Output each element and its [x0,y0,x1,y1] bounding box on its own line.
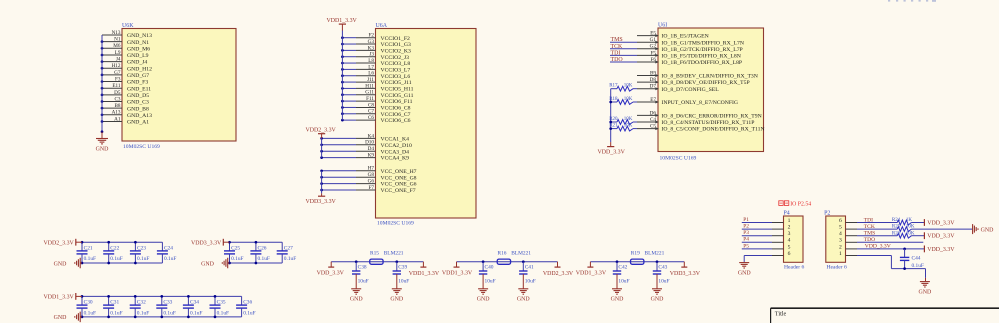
capacitor C32 0.1uF [130,295,150,318]
svg-text:G7: G7 [114,70,121,76]
pin 3 of P4 with net label P3 [742,230,791,237]
svg-text:Title: Title [775,310,787,317]
wire and net label TCK to U6I pin G2 [610,44,637,50]
svg-text:VCC_ONE_F7: VCC_ONE_F7 [381,188,416,194]
resistor R17 10K pullup [609,84,637,91]
svg-text:D8: D8 [650,77,657,83]
svg-text:D10: D10 [365,140,374,146]
svg-text:C30: C30 [84,300,93,306]
wire and net label TDO to U6I pin F6 [610,57,637,63]
svg-text:VCCA2_D10: VCCA2_D10 [381,143,412,149]
pin D5 of U6K (GND_D5) [101,90,150,99]
pin C8 of U6A (VCCIO6_C8) [341,102,411,111]
pin F7 of U6A (VCC_ONE_F7) [320,185,415,194]
svg-text:IO_8_D8/DEV_OE/DIFFIO_RX_T5P: IO_8_D8/DEV_OE/DIFFIO_RX_T5P [662,80,750,86]
svg-text:INPUT_ONLY_8_E7/NCONFIG: INPUT_ONLY_8_E7/NCONFIG [662,100,739,106]
svg-text:VDD3_3.3V: VDD3_3.3V [670,271,701,277]
svg-text:0.1uF: 0.1uF [912,263,924,269]
pin B9 of U6I (IO_8_B9/DEV_CLRN/DIFFIO_RX_T3N) [637,70,758,79]
svg-text:GND: GND [738,271,752,277]
svg-text:D7: D7 [650,84,657,90]
svg-text:C36: C36 [243,300,252,306]
svg-text:R19: R19 [631,251,640,257]
pin 5 of P4 with net label P5 [742,243,791,250]
svg-text:GND_F3: GND_F3 [127,80,148,86]
resistor R25 10K pull-down on TCK [892,225,972,232]
svg-text:C8: C8 [368,102,374,108]
svg-text:C41: C41 [525,264,534,270]
svg-text:TMS: TMS [864,231,876,237]
pin F3 of U6K (GND_F3) [101,76,149,85]
designator U6A [376,23,388,29]
svg-text:0.1uF: 0.1uF [217,310,229,316]
cropped text artifacts top edge [888,0,936,2]
svg-text:U6A: U6A [376,23,388,29]
svg-text:10K: 10K [624,97,633,102]
svg-text:VDD3_3.3V: VDD3_3.3V [306,199,337,205]
wire from P2 pin 1 to ground [857,256,926,278]
designator U6I [658,22,667,28]
capacitor C41 10uF [519,260,536,288]
svg-text:VDD2_3.3V: VDD2_3.3V [44,241,75,247]
wire filter rail R19 [590,261,684,263]
pin D7 of U6I (IO_8_D7/CONFIG_SEL) [637,84,719,93]
svg-text:GND_J4: GND_J4 [127,60,147,66]
capacitor C26 0.1uF [250,241,270,265]
wire TMS from P2 pin 4 with net label [857,231,897,237]
wire TDO from P2 pin 3 with net label [857,237,923,243]
ground symbol for capacitor bank C21-C24 [54,258,82,269]
pin L7 of U6A (VCCIO3_L7) [341,64,410,73]
svg-text:GND_L9: GND_L9 [127,53,149,59]
wire pull-up bus left of U6I [609,89,612,142]
svg-text:GND: GND [477,297,491,303]
ground symbol below C44 [919,278,933,296]
svg-text:C3: C3 [114,96,120,102]
svg-text:0.1uF: 0.1uF [284,256,296,262]
svg-text:K4: K4 [368,133,375,139]
svg-text:Header 6: Header 6 [827,265,848,271]
svg-text:VCCIO3_L7: VCCIO3_L7 [381,68,411,74]
power port VDD_3.3V below pull-up bus [598,142,626,155]
svg-text:F3: F3 [115,76,121,82]
svg-text:VCCIO2_K3: VCCIO2_K3 [381,48,411,54]
svg-text:F5: F5 [651,50,657,56]
svg-text:P4: P4 [784,211,790,217]
svg-text:0.1uF: 0.1uF [84,310,96,316]
svg-text:VCCIO1_F2: VCCIO1_F2 [381,36,411,42]
pin F2 of U6A (VCCIO1_F2) [341,33,410,42]
wire top rail VDD1_3.3V capacitor bank [82,295,242,297]
svg-text:C44: C44 [912,255,921,261]
wire filter rail R16 [457,261,558,263]
capacitor C35 0.1uF [210,295,230,318]
svg-text:A1: A1 [114,116,121,122]
svg-text:F6: F6 [651,57,657,63]
svg-text:TDO: TDO [611,57,624,63]
pin G1 of U6I (IO_1B_G1/TMS/DIFFIO_RX_L7N) [637,37,744,46]
svg-text:10K: 10K [624,84,633,89]
ground symbol below U6K [96,132,110,153]
svg-text:10uF: 10uF [525,279,536,285]
svg-text:10uF: 10uF [398,279,409,285]
pin J3 of U6A (VCCIO2_J3) [341,52,409,61]
annotation 预留IO P2.54 (reserved IO) in red [779,201,811,208]
svg-text:0.1uF: 0.1uF [243,310,255,316]
svg-text:VCC_ONE_H7: VCC_ONE_H7 [381,169,417,175]
power port VDD2_3.3V above U6A group2 [306,128,337,139]
resistor R21 10K pullup [609,124,637,131]
capacitor C38 10uF [352,260,369,288]
svg-text:10uF: 10uF [618,279,629,285]
pin C6 of U6A (VCCIO6_C6) [341,115,411,124]
svg-text:3: 3 [788,231,791,237]
pin H7 of U6A (VCC_ONE_H7) [320,166,416,175]
wire TDI from P2 pin 6 with net label [857,217,897,223]
resistor R20 10K pullup [609,117,637,124]
svg-text:C21: C21 [84,246,93,252]
svg-text:G11: G11 [365,90,374,96]
svg-text:G3: G3 [368,39,375,45]
ground symbol below C41 [517,289,531,303]
wire VDD_3.3V from P2 pin 2 with net label [857,244,924,251]
svg-text:C43: C43 [658,264,667,270]
pin N13 of U6K (GND_N13) [102,30,152,39]
svg-text:TCK: TCK [864,224,875,230]
pin C7 of U6A (VCCIO6_C7) [341,109,411,118]
svg-text:IO_1B_G1/TMS/DIFFIO_RX_L7N: IO_1B_G1/TMS/DIFFIO_RX_L7N [662,40,744,46]
svg-text:VCCIO3_L6: VCCIO3_L6 [381,74,411,80]
svg-text:C35: C35 [217,300,226,306]
capacitor C24 0.1uF [157,242,177,263]
svg-text:0.1uF: 0.1uF [137,256,149,262]
svg-text:GND: GND [390,297,404,303]
svg-text:GND: GND [517,297,531,303]
pin E5 of U6I (IO_1B_E5/JTAGEN) [637,31,709,40]
pin 6 of P2 [839,218,857,224]
svg-text:VCCIO5_J11: VCCIO5_J11 [381,80,412,86]
svg-text:R25: R25 [892,225,901,230]
svg-text:P5: P5 [743,243,749,249]
svg-text:D6: D6 [650,110,657,116]
svg-text:GND_M6: GND_M6 [127,46,150,52]
svg-text:VDD_3.3V: VDD_3.3V [598,149,626,155]
svg-text:C7: C7 [368,109,374,115]
svg-text:6: 6 [839,218,842,224]
svg-text:P1: P1 [743,217,749,223]
pin K3 of U6A (VCCIO2_K3) [341,45,411,54]
svg-text:C38: C38 [358,264,367,270]
svg-text:N13: N13 [112,30,121,36]
svg-text:P2: P2 [743,224,749,230]
svg-text:C5: C5 [650,124,656,130]
svg-text:P3: P3 [743,230,749,236]
wire and net label TMS to U6I pin G1 [610,37,637,43]
svg-text:P2: P2 [824,211,830,217]
svg-text:VCCIO2_J3: VCCIO2_J3 [381,55,410,61]
svg-text:B8: B8 [114,103,120,109]
capacitor C42 10uF [613,260,630,288]
svg-text:D4: D4 [368,146,375,152]
svg-text:C4: C4 [650,117,656,123]
capacitor C44 0.1uF [900,249,924,269]
pin F6 of U6I (IO_1B_F6/TDO/DIFFIO_RX_L8P) [637,57,742,66]
svg-text:GND: GND [611,297,625,303]
pin G6 of U6A (VCC_ONE_G6) [320,179,416,188]
ferrite bead R16 BLM221 [497,251,531,265]
power port VDD_3.3V on TMS pull-up [924,232,955,239]
wire VDD2 bus of U6A group2 [321,138,323,157]
IC U6K FPGA GND bank component box [122,29,236,142]
designator P4 [784,211,790,217]
svg-text:C32: C32 [137,300,146,306]
capacitor C40 10uF [479,260,496,288]
svg-text:VCCA4_K9: VCCA4_K9 [381,156,410,162]
wire GND bus of U6K [101,35,104,133]
svg-text:F2: F2 [369,33,375,39]
power port VDD1_3.3V for capacitor bank [44,293,82,301]
wire top rail VDD2_3.3V capacitor bank [82,241,162,243]
svg-text:R15: R15 [370,251,379,257]
svg-text:GND: GND [651,297,665,303]
designator P2 [824,211,830,217]
svg-text:VCCIO6_C7: VCCIO6_C7 [381,112,411,118]
pin E11 of U6K (GND_E11) [101,83,152,92]
svg-text:R24: R24 [892,218,901,223]
component U6I FPGA JTAG/config box [658,28,764,152]
svg-text:C24: C24 [164,246,173,252]
svg-text:5: 5 [839,225,842,231]
svg-text:C42: C42 [618,264,627,270]
svg-text:TDO: TDO [864,237,876,243]
svg-text:GND_C3: GND_C3 [127,100,149,106]
pin H11 of U6A (VCCIO5_H11) [341,83,414,92]
svg-text:J4: J4 [116,57,121,63]
part value 10M02SC U169 (U6K) [123,144,160,150]
ferrite bead R15 BLM221 [370,251,404,265]
pin G7 of U6K (GND_G7) [101,70,150,79]
ground symbol for capacitor bank C25-C27 [201,258,229,269]
svg-text:U6K: U6K [122,23,134,29]
svg-text:C25: C25 [231,246,240,252]
pin L6 of U6A (VCCIO3_L6) [341,71,410,80]
svg-text:10uF: 10uF [358,279,369,285]
part value Header 6 (P2) [827,265,848,271]
wire bottom rail GND capacitor bank C21-C24 [82,262,162,264]
svg-text:VDD3_3.3V: VDD3_3.3V [191,241,222,247]
pin E7 of U6I (INPUT_ONLY_8_E7/NCONFIG) [637,97,738,106]
pin B8 of U6K (GND_B8) [101,103,149,112]
ground symbol for capacitor bank C30-C36 [54,312,82,323]
svg-text:GND: GND [54,315,68,321]
svg-text:E5: E5 [650,31,656,37]
capacitor C27 0.1uF [277,242,297,263]
svg-text:VCCIO1_G3: VCCIO1_G3 [381,42,411,48]
svg-text:GND_D5: GND_D5 [127,93,149,99]
wire bottom rail GND capacitor bank C30-C36 [82,316,242,318]
pin G3 of U6A (VCCIO1_G3) [341,39,411,48]
wire VDD3 bus of U6A group3 [321,171,323,194]
svg-text:GND_B8: GND_B8 [127,106,149,112]
pin A13 of U6K (GND_A13) [101,110,152,119]
svg-text:A13: A13 [112,110,121,116]
svg-text:10K: 10K [624,124,633,129]
svg-text:VDD1_3.3V: VDD1_3.3V [442,271,473,277]
svg-text:VDD_3.3V: VDD_3.3V [927,234,955,240]
resistor R18 10K pullup [609,97,637,104]
wire TCK from P2 pin 5 with net label [857,224,897,230]
svg-text:IO_1B_F5/TDI/DIFFIO_RX_L8N: IO_1B_F5/TDI/DIFFIO_RX_L8N [662,54,741,60]
capacitor C22 0.1uF [103,241,123,265]
svg-text:C33: C33 [163,300,172,306]
svg-text:GND_H12: GND_H12 [127,66,152,72]
pin 3 of P2 [839,238,857,244]
part value 10M02SC U169 (U6A) [377,221,414,227]
svg-text:VDD_3.3V: VDD_3.3V [865,244,891,250]
svg-text:3: 3 [839,238,842,244]
svg-text:C22: C22 [110,246,119,252]
svg-text:GND: GND [96,146,110,152]
svg-text:IO_8_C4/NSTATUS/DIFFIO_RX_T11P: IO_8_C4/NSTATUS/DIFFIO_RX_T11P [662,120,755,126]
svg-text:K9: K9 [368,153,375,159]
svg-text:Header 6: Header 6 [784,265,805,271]
pin C5 of U6I (IO_8_C5/CONF_DONE/DIFFIO_RX_T11N) [637,124,765,133]
power port VDD3_3.3V output of R19 filter [670,262,701,277]
svg-text:VCCIO5_G11: VCCIO5_G11 [381,93,414,99]
pin C4 of U6I (IO_8_C4/NSTATUS/DIFFIO_RX_T11P) [637,117,754,126]
svg-text:GND: GND [350,297,364,303]
svg-text:0.1uF: 0.1uF [231,256,243,262]
svg-text:0.1uF: 0.1uF [164,256,176,262]
ground symbol below C38 [350,289,364,303]
ground symbol sideways on TCK pull-down [973,224,995,234]
svg-text:IO_8_D7/CONFIG_SEL: IO_8_D7/CONFIG_SEL [662,87,720,93]
svg-text:BLM221: BLM221 [384,251,404,257]
svg-text:VCCIO5_H11: VCCIO5_H11 [381,87,414,93]
pin J4 of U6K (GND_J4) [101,57,148,66]
pin A1 of U6K (GND_A1) [101,116,150,125]
pin C3 of U6K (GND_C3) [101,96,149,105]
svg-text:J11: J11 [367,77,374,83]
svg-text:F7: F7 [369,185,375,191]
svg-text:0.1uF: 0.1uF [137,310,149,316]
svg-text:F11: F11 [366,96,374,102]
capacitor C23 0.1uF [130,241,150,265]
pin K4 of U6A (VCCA1_K4) [320,133,409,142]
part value Header 6 (P4) [784,265,805,271]
svg-text:1: 1 [839,251,842,257]
svg-text:10uF: 10uF [485,279,496,285]
svg-text:VDD_3.3V: VDD_3.3V [317,271,345,277]
ground symbol below C42 [611,289,625,303]
svg-text:D5: D5 [114,90,121,96]
ferrite bead R19 BLM221 [631,251,665,265]
pin G2 of U6I (IO_1B_G2/TCK/DIFFIO_RX_L7P) [637,44,743,53]
svg-text:U6I: U6I [658,22,667,28]
svg-text:VDD1_3.3V: VDD1_3.3V [44,295,75,301]
pin D10 of U6A (VCCA2_D10) [320,140,412,149]
svg-text:R26: R26 [892,231,901,236]
svg-text:C6: C6 [368,115,374,121]
svg-text:GND: GND [54,261,68,267]
svg-text:GND_A13: GND_A13 [127,113,152,119]
pin D6 of U6I (IO_8_D6/CRC_ERROR/DIFFIO_RX_T9N) [637,110,762,119]
svg-text:H11: H11 [365,83,374,89]
pin J11 of U6A (VCCIO5_J11) [341,77,412,86]
pin 2 of P2 [839,244,857,250]
capacitor C31 0.1uF [103,295,123,318]
svg-text:GND_E11: GND_E11 [127,86,151,92]
svg-text:10M02SC U169: 10M02SC U169 [377,221,414,227]
pin F5 of U6I (IO_1B_F5/TDI/DIFFIO_RX_L8N) [637,50,741,59]
svg-text:J3: J3 [369,52,374,58]
capacitor C43 10uF [653,260,670,288]
capacitor C21 0.1uF [77,241,97,265]
svg-text:BLM221: BLM221 [645,251,665,257]
svg-text:K3: K3 [368,45,375,51]
svg-text:BLM221: BLM221 [511,251,531,257]
svg-text:VCCA3_D4: VCCA3_D4 [381,149,410,155]
wire top rail VDD3_3.3V capacitor bank [230,241,283,243]
pin G8 of U6A (VCC_ONE_G8) [320,172,416,181]
svg-text:0.1uF: 0.1uF [110,310,122,316]
svg-text:G6: G6 [368,179,375,185]
svg-text:GND: GND [981,227,995,233]
svg-text:G1: G1 [650,37,657,43]
svg-text:VCCIO3_L8: VCCIO3_L8 [381,61,411,67]
pin D8 of U6I (IO_8_D8/DEV_OE/DIFFIO_RX_T5P) [637,77,750,86]
svg-text:C23: C23 [137,246,146,252]
power port VDD_3.3V input of R15 filter [317,262,345,277]
svg-text:VCCA1_K4: VCCA1_K4 [381,137,410,143]
pin L9 of U6K (GND_L9) [101,50,149,59]
svg-text:E11: E11 [112,83,121,89]
svg-text:IO P2.54: IO P2.54 [790,201,811,207]
svg-text:M6: M6 [113,43,121,49]
svg-text:TDI: TDI [611,50,621,56]
svg-text:L6: L6 [368,71,374,77]
svg-text:IO_1B_F6/TDO/DIFFIO_RX_L8P: IO_1B_F6/TDO/DIFFIO_RX_L8P [662,60,743,66]
svg-text:R17: R17 [609,84,618,89]
capacitor C36 0.1uF [236,296,256,317]
svg-text:VDD2_3.3V: VDD2_3.3V [306,128,337,134]
svg-text:0.1uF: 0.1uF [190,310,202,316]
svg-text:L9: L9 [115,50,121,56]
svg-text:VDD1_3.3V: VDD1_3.3V [327,18,358,24]
svg-text:N1: N1 [114,37,121,43]
pin 4 of P2 [839,231,857,237]
svg-text:GND_N13: GND_N13 [127,33,152,39]
svg-text:IO_8_B9/DEV_CLRN/DIFFIO_RX_T3N: IO_8_B9/DEV_CLRN/DIFFIO_RX_T3N [662,74,758,80]
wire VDD1 bus of U6A group1 [341,31,343,121]
svg-text:B9: B9 [650,70,656,76]
pin 4 of P4 with net label P4 [742,237,791,244]
svg-text:TDI: TDI [864,217,873,223]
svg-text:VCC_ONE_G8: VCC_ONE_G8 [381,175,417,181]
power port VDD_3.3V on TDI pull-up [924,219,955,226]
pin L8 of U6A (VCCIO3_L8) [341,58,410,67]
svg-text:IO_8_D6/CRC_ERROR/DIFFIO_RX_T9: IO_8_D6/CRC_ERROR/DIFFIO_RX_T9N [662,114,762,120]
power port VDD2_3.3V for capacitor bank [44,239,82,247]
svg-text:4: 4 [839,231,842,237]
title block border [771,308,999,323]
power port VDD_3.3V on P2 pin 2 [924,246,955,253]
svg-text:C39: C39 [398,264,407,270]
connector P4 header box [784,216,804,262]
svg-text:P4: P4 [743,237,749,243]
svg-text:G2: G2 [650,44,657,50]
svg-text:0.1uF: 0.1uF [84,256,96,262]
